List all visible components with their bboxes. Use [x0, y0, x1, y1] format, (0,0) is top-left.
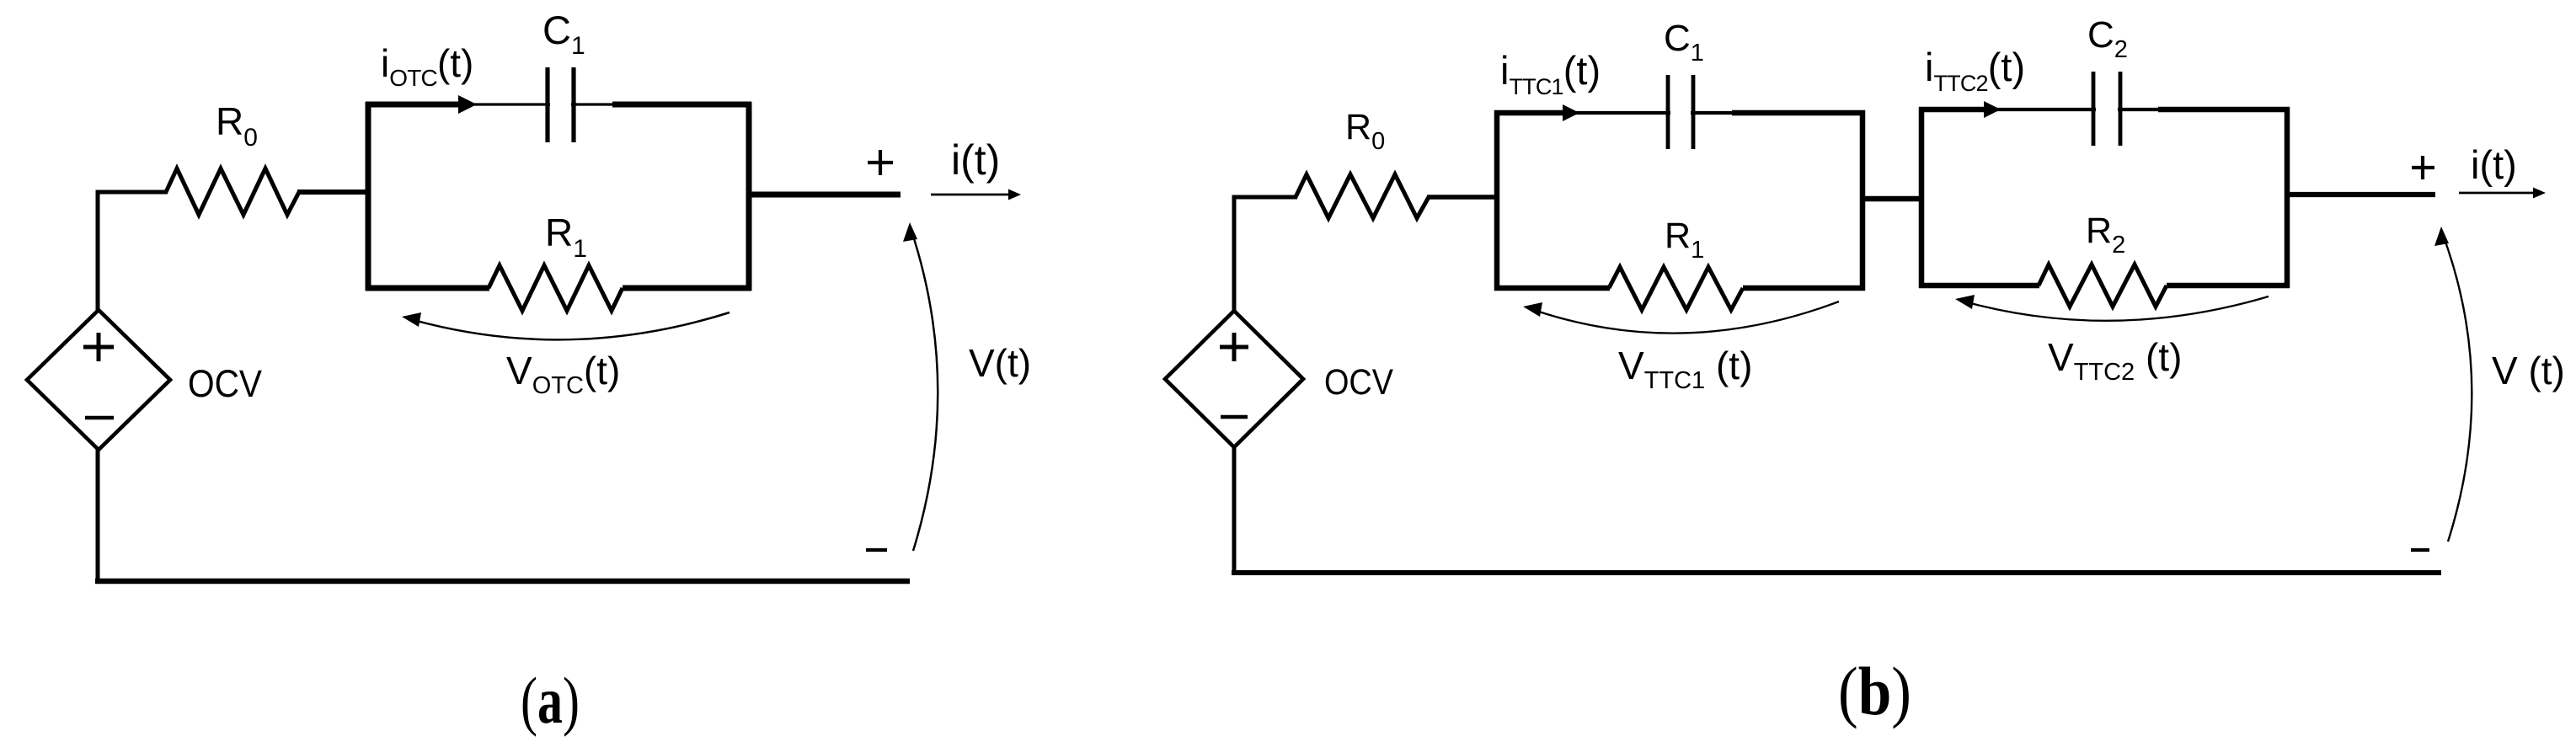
RC box2 (b): top edge thin through capacitor	[1986, 108, 2158, 111]
svg-text:OCV: OCV	[1324, 362, 1393, 403]
i(t) arrow (b)	[2459, 192, 2534, 195]
V(t) measurement arc (a)	[911, 228, 938, 551]
current arrow on box2 top wire (b)	[1984, 101, 2001, 118]
RC box1 (b): top edge thick left	[1494, 110, 1565, 116]
white gap between plates	[550, 101, 571, 109]
wire: R0 to box1 (b)	[1427, 195, 1497, 200]
RC box2 (b): bottom edge thick left	[1919, 283, 2039, 289]
RC box1 (b): bottom edge thick right	[1743, 286, 1865, 291]
RC box1 (b): left edge	[1494, 110, 1500, 291]
V(t) measurement arc (b)	[2442, 232, 2472, 542]
svg-text:V (t): V (t)	[2492, 349, 2565, 392]
minus sign near output bottom (b)	[2411, 548, 2429, 552]
minus sign inside source	[85, 416, 114, 420]
RC box (a): right edge	[746, 102, 752, 291]
capacitor C1 plates (a)	[548, 67, 574, 142]
V_TTC2 arc under R2 (b)	[1961, 296, 2269, 321]
RC box2 (b): right edge	[2285, 107, 2290, 288]
resistor R0	[166, 168, 299, 215]
svg-text:OCV: OCV	[188, 362, 262, 405]
wire: source bottom to bottom rail	[96, 450, 100, 583]
RC box (a): left edge	[366, 102, 371, 291]
wire: top-left horizontal from corner to R0 (b)	[1234, 197, 1297, 312]
current arrow on top wire (a)	[458, 95, 477, 114]
svg-text:i(t): i(t)	[2471, 142, 2517, 187]
capacitor C1 plates (b)	[1668, 75, 1693, 149]
RC box2 (b): top edge thick right	[2158, 107, 2290, 113]
RC box2 (b): bottom edge thick right	[2167, 283, 2290, 289]
wire: source bottom to bottom rail (b)	[1232, 447, 1237, 574]
svg-text:(a): (a)	[521, 664, 580, 737]
RC box2 (b): left edge	[1919, 107, 1925, 288]
wire: top-left horizontal from corner to R0	[98, 192, 168, 312]
RC box (a): top edge thin segment through capacitor	[462, 103, 612, 105]
RC box2 (b): top edge thick left	[1919, 107, 1986, 113]
RC box1 (b): top edge thick right	[1732, 110, 1865, 116]
V_OTC arc under R1 (a)	[408, 312, 730, 339]
output wire (a)	[746, 192, 901, 198]
middle wire between boxes (b)	[1860, 196, 1924, 202]
minus sign inside source (b)	[1221, 415, 1248, 419]
resistor R1 (b)	[1609, 267, 1743, 310]
svg-text:i(t): i(t)	[951, 136, 1000, 184]
RC box1 (b): bottom edge thick left	[1494, 286, 1610, 291]
wire: bottom rail (b)	[1232, 570, 2441, 575]
capacitor C2 plates (b)	[2093, 72, 2120, 146]
RC box (a): bottom edge thick left	[366, 286, 489, 291]
svg-text:V(t): V(t)	[969, 341, 1031, 385]
voltage source OCV (diamond)	[27, 310, 170, 450]
RC box (a): top edge thick segment right	[612, 102, 751, 108]
RC box (a): top edge thick segment left	[366, 102, 462, 108]
plus sign inside source (b)	[1220, 333, 1248, 361]
resistor R1 (a)	[489, 265, 623, 311]
RC box1 (b): top edge thin through capacitor	[1565, 111, 1732, 115]
i(t) arrow (a)	[931, 194, 1009, 196]
wire: bottom rail (a)	[95, 579, 910, 585]
plus sign at output (a)	[868, 150, 893, 175]
RC box (a): bottom edge thick right	[623, 286, 751, 291]
resistor R2 (b)	[2039, 264, 2167, 307]
voltage source OCV diamond (b)	[1165, 311, 1303, 447]
minus sign near output bottom (a)	[866, 548, 887, 552]
white gap between plates (b box1)	[1670, 109, 1691, 117]
plus sign inside source	[83, 333, 114, 361]
svg-text:(b): (b)	[1838, 653, 1911, 729]
plus sign at output (b)	[2412, 156, 2434, 179]
resistor R0 (b)	[1296, 174, 1429, 218]
wire: R0 to box1a	[297, 190, 368, 195]
RC box1 (b): right edge	[1860, 110, 1866, 291]
current arrow on box1 top wire (b)	[1563, 104, 1579, 121]
output wire (b)	[2285, 192, 2435, 197]
white gap between plates (b box2)	[2096, 105, 2118, 114]
V_TTC1 arc under R1 (b)	[1529, 302, 1839, 334]
